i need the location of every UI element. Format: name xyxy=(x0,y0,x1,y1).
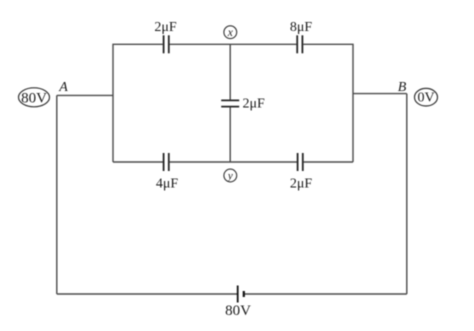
wire bottom-left segment (left-bottom corner to C4 left plate) xyxy=(113,161,163,163)
wire outer-left vertical (node A down to battery loop) xyxy=(56,95,58,294)
svg-text:4μF: 4μF xyxy=(156,177,179,192)
wire top-left segment (node left-top corner to C1 left plate) xyxy=(113,44,163,162)
wire node B stub (right network terminal) xyxy=(353,93,407,95)
svg-text:2μF: 2μF xyxy=(154,20,177,35)
svg-text:2μF: 2μF xyxy=(243,97,266,112)
wire bottom-right segment (C5 right plate to right-bottom corner) xyxy=(304,161,353,163)
wire outer-right vertical (node B down to battery loop) xyxy=(406,94,408,294)
svg-text:0V: 0V xyxy=(417,91,434,106)
svg-text:80V: 80V xyxy=(21,90,47,106)
svg-text:8μF: 8μF xyxy=(290,20,313,35)
svg-text:A: A xyxy=(58,80,68,95)
capacitor 2uF top-left (C1) plates xyxy=(164,35,169,53)
wire top-middle segment (C1 right plate to C2 left plate through node x) xyxy=(170,43,297,45)
terminal potential 0V (ellipse at node B) xyxy=(415,88,438,106)
svg-text:B: B xyxy=(398,80,407,95)
wire top-right segment (C2 right plate to right-top corner) xyxy=(303,44,353,162)
wire bottom loop left (to battery positive plate) xyxy=(57,293,238,295)
wire bottom-middle segment (C4 right plate to C5 left plate through node y) xyxy=(170,161,297,163)
battery 80V (short negative plate) xyxy=(243,291,245,297)
svg-text:80V: 80V xyxy=(225,303,251,319)
node x (top middle junction marker) xyxy=(224,26,237,39)
battery 80V (long positive plate) xyxy=(237,286,239,303)
capacitor 2uF middle vertical (C3) plates xyxy=(221,100,239,106)
wire node A stub (left network terminal) xyxy=(57,94,113,96)
svg-text:y: y xyxy=(227,170,233,182)
svg-text:2μF: 2μF xyxy=(290,177,313,192)
node y (bottom middle junction marker) xyxy=(224,169,237,182)
wire middle vertical upper (node x junction down to C3 top plate) xyxy=(229,44,231,100)
capacitor 2uF bottom-right (C5) plates xyxy=(298,153,303,171)
wire middle vertical lower (C3 bottom plate down to node y junction) xyxy=(229,107,231,162)
capacitor 8uF top-right (C2) plates xyxy=(297,35,302,53)
svg-text:x: x xyxy=(227,27,234,39)
capacitor 4uF bottom-left (C4) plates xyxy=(164,153,169,171)
terminal potential 80V (ellipse at node A) xyxy=(19,88,50,107)
wire bottom loop right (from battery negative plate) xyxy=(244,293,407,295)
